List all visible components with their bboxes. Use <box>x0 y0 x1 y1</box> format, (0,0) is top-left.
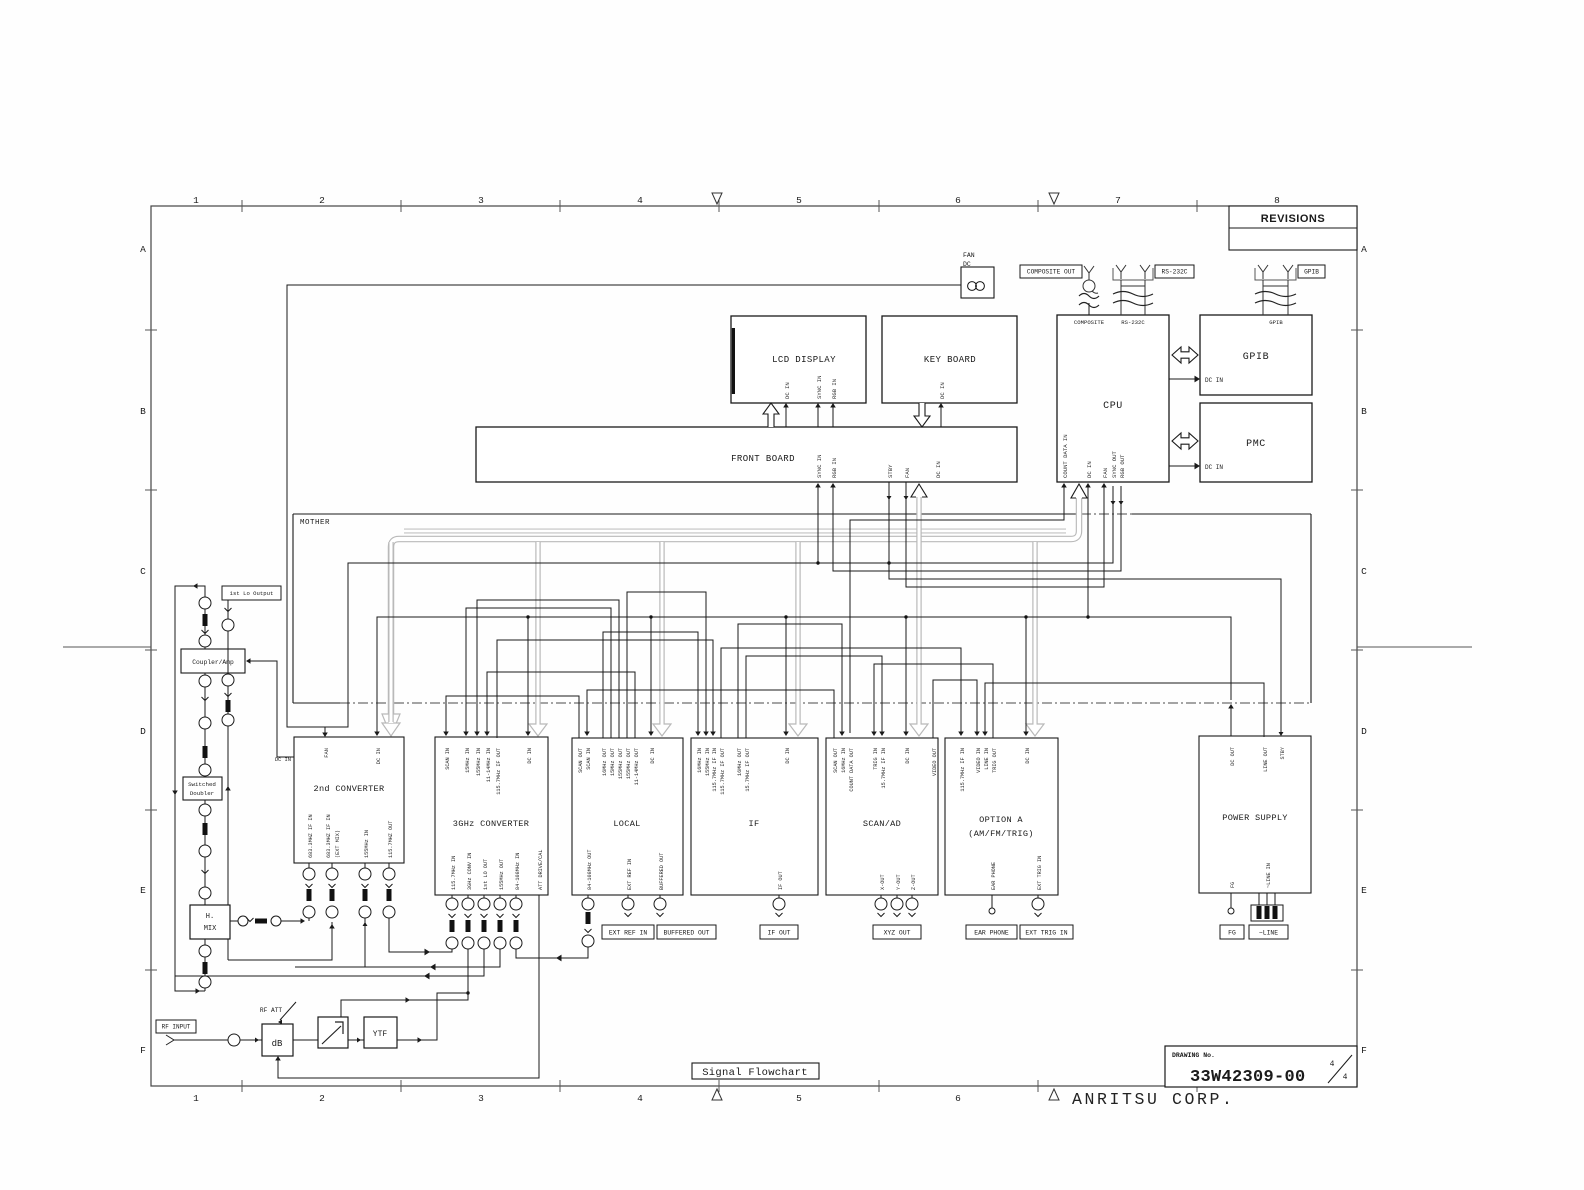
svg-text:XYZ OUT: XYZ OUT <box>884 929 911 936</box>
attenuator dB box <box>262 1024 293 1056</box>
svg-text:RGB IN: RGB IN <box>831 458 838 478</box>
svg-text:4: 4 <box>1330 1060 1335 1069</box>
3GHz CONVERTER box <box>435 737 548 895</box>
svg-text:4: 4 <box>637 195 643 206</box>
LOCAL box <box>572 738 683 895</box>
wire DC drop <box>905 617 907 733</box>
svg-text:115.7MHZ OUT: 115.7MHZ OUT <box>388 821 394 858</box>
svg-text:8: 8 <box>1274 195 1280 206</box>
svg-text:7: 7 <box>1115 195 1121 206</box>
svg-text:VIDEO IN: VIDEO IN <box>976 748 982 773</box>
svg-text:FAN: FAN <box>1102 468 1109 478</box>
wire DC IN to coupler/amp <box>249 661 294 757</box>
CPU box <box>1057 315 1169 482</box>
wire CPU to GPIB DC IN <box>1169 378 1196 380</box>
wire DC drop <box>785 617 787 733</box>
wire net 15.7MHz IF (IF - SCAN/AD) <box>746 656 882 738</box>
power arrow KEY to FRONT <box>914 403 930 427</box>
svg-text:EAR PHONE: EAR PHONE <box>974 929 1009 936</box>
svg-text:DC IN: DC IN <box>784 382 791 399</box>
SCAN/AD box <box>826 738 938 895</box>
svg-text:Signal Flowchart: Signal Flowchart <box>702 1067 808 1079</box>
wire net TRIG (OPTION A - SCAN/AD) <box>874 664 993 738</box>
svg-text:dB: dB <box>272 1039 283 1049</box>
connector chain 2nd-conv pin x=365 <box>364 863 366 868</box>
svg-text:COMPOSITE OUT: COMPOSITE OUT <box>1027 269 1076 276</box>
svg-text:DC IN: DC IN <box>1086 461 1093 478</box>
wire FRONT to LCD RGB IN <box>832 407 834 427</box>
svg-text:3GHz CONV IN: 3GHz CONV IN <box>467 853 473 890</box>
wire YTF output <box>397 993 468 1040</box>
svg-text:115.7MHz IF OUT: 115.7MHz IF OUT <box>496 748 502 795</box>
svg-text:LCD DISPLAY: LCD DISPLAY <box>772 355 836 365</box>
svg-text:SYNC IN: SYNC IN <box>816 376 823 400</box>
svg-text:MIX: MIX <box>204 925 217 933</box>
wire dB to switch <box>293 1039 318 1041</box>
svg-text:3: 3 <box>478 195 484 206</box>
wire DC drop <box>1025 617 1027 733</box>
wire net 155MHz a (LOCAL - 3GHz) <box>477 600 619 738</box>
svg-text:LINE OUT: LINE OUT <box>1263 747 1269 772</box>
svg-text:C: C <box>140 566 146 577</box>
power bus trunk <box>391 498 1079 723</box>
svg-text:SCAN OUT: SCAN OUT <box>833 748 839 773</box>
connectors XYZ OUT <box>880 895 882 898</box>
svg-text:IF: IF <box>749 819 760 829</box>
wire switch bypass <box>341 949 468 1017</box>
switch box <box>318 1017 348 1048</box>
svg-text:RGB IN: RGB IN <box>831 379 838 399</box>
frame triangle marks <box>712 193 722 204</box>
svg-text:OPTION A: OPTION A <box>979 815 1023 825</box>
wire 115.7MHz (2nd conv - 3GHz) <box>389 918 452 952</box>
connector chain 2nd-conv pin x=389 <box>388 863 390 868</box>
POWER SUPPLY box <box>1199 736 1311 893</box>
wire CPU to PMC DC IN <box>1169 465 1196 467</box>
svg-text:H.: H. <box>206 913 214 921</box>
svg-text:DC OUT: DC OUT <box>1230 747 1236 766</box>
svg-text:1: 1 <box>193 195 199 206</box>
svg-text:16MHz IN: 16MHz IN <box>841 748 847 773</box>
svg-text:FAN: FAN <box>904 468 911 478</box>
svg-text:155MHz OUT: 155MHz OUT <box>499 859 505 890</box>
svg-text:2: 2 <box>319 195 325 206</box>
svg-text:SCAN IN: SCAN IN <box>445 748 451 770</box>
svg-text:DC IN: DC IN <box>905 748 911 764</box>
label RF INPUT <box>156 1020 196 1033</box>
svg-text:D: D <box>1361 726 1367 737</box>
svg-text:CPU: CPU <box>1103 401 1123 412</box>
power arrow into CPU <box>1071 484 1087 498</box>
IF box <box>691 738 818 895</box>
svg-text:E: E <box>1361 885 1367 896</box>
wire net 15MHz (LOCAL - 3GHz) <box>466 608 611 738</box>
svg-text:5: 5 <box>796 1093 802 1104</box>
svg-text:X-OUT: X-OUT <box>880 874 886 890</box>
wire net 115.7MHz IF (3GHz - IF) <box>497 640 713 738</box>
svg-text:TRIG OUT: TRIG OUT <box>992 748 998 773</box>
connector EAR PHONE <box>991 895 993 908</box>
svg-text:(EXT MIX): (EXT MIX) <box>335 830 341 858</box>
wire net RGB (FRONT BOARD - CPU) <box>833 486 1121 571</box>
label Signal Flowchart <box>692 1063 819 1079</box>
svg-text:ANRITSU CORP.: ANRITSU CORP. <box>1072 1090 1235 1109</box>
svg-text:SYNC OUT: SYNC OUT <box>1111 451 1118 478</box>
svg-text:SCAN OUT: SCAN OUT <box>578 748 584 773</box>
svg-text:6: 6 <box>955 1093 961 1104</box>
svg-text:TRIG IN: TRIG IN <box>873 748 879 770</box>
svg-text:DC IN: DC IN <box>650 748 656 764</box>
svg-text:155MHz IN: 155MHz IN <box>705 748 711 776</box>
connector chain 3GHz pin x=516 <box>515 895 517 898</box>
wire net 16MHz a (LOCAL - IF) <box>603 632 698 738</box>
power bus drop OPTION A <box>1026 542 1044 736</box>
svg-text:STBY: STBY <box>1280 746 1286 759</box>
svg-text:~LINE IN: ~LINE IN <box>1266 863 1272 888</box>
frame zone ticks top/bottom <box>241 200 243 212</box>
power arrow into FRONT BOARD <box>911 484 927 497</box>
svg-text:RF ATT: RF ATT <box>260 1007 283 1014</box>
connector chain 3GHz pin x=452 <box>451 895 453 898</box>
wire 84-108MHz (LOCAL - 3GHz) <box>516 947 588 958</box>
power bus riser/drop SCAN-AD + FRONT BOARD <box>910 497 928 736</box>
wire ATT DRIVE/CAL to dB attenuator <box>278 895 539 1078</box>
svg-text:33W42309-00: 33W42309-00 <box>1190 1068 1306 1087</box>
svg-text:16MHz IN: 16MHz IN <box>697 748 703 773</box>
svg-text:GPIB: GPIB <box>1269 319 1283 326</box>
svg-text:FAN: FAN <box>963 252 975 259</box>
wire loop left vertical <box>175 586 205 991</box>
label 1st Lo Output <box>222 586 281 600</box>
fan DC box <box>961 267 994 298</box>
svg-text:Switched: Switched <box>188 781 216 788</box>
svg-text:EXT TRIG IN: EXT TRIG IN <box>1037 856 1043 890</box>
connector GPIB <box>1298 265 1325 278</box>
wire switch to YTF <box>348 1039 364 1041</box>
wire DC drop <box>527 617 529 733</box>
wire net 16MHz b (IF - SCAN/AD) <box>738 624 842 738</box>
power bus drop 3GHz converter <box>529 542 547 736</box>
PMC box <box>1200 403 1312 482</box>
svg-text:115.7MHz IF OUT: 115.7MHz IF OUT <box>720 748 726 795</box>
H.MIX output chain <box>230 920 238 922</box>
wire net 11-14MHz (LOCAL - 3GHz) <box>487 672 635 738</box>
wire net STBY (FRONT BOARD - POWER SUPPLY) <box>889 482 1281 733</box>
connector chain 2nd-conv pin x=332 <box>331 863 333 868</box>
svg-text:BUFFERED OUT: BUFFERED OUT <box>659 853 665 890</box>
svg-text:DC IN: DC IN <box>376 748 382 764</box>
svg-text:ATT DRIVE/CAL: ATT DRIVE/CAL <box>538 850 544 890</box>
svg-text:DC IN: DC IN <box>1205 377 1223 384</box>
svg-text:STBY: STBY <box>887 464 894 478</box>
svg-text:POWER SUPPLY: POWER SUPPLY <box>1222 813 1288 823</box>
connector BUFFERED OUT <box>659 895 661 898</box>
bus CPU-PMC <box>1172 433 1198 449</box>
svg-text:DC IN: DC IN <box>1025 748 1031 764</box>
wire FRONT to LCD SYNC IN <box>817 407 819 427</box>
wire 1st LO loop to left chain <box>175 949 484 976</box>
svg-text:KEY BOARD: KEY BOARD <box>924 355 976 365</box>
wire net SCAN b (LOCAL - 3GHz) <box>446 696 579 738</box>
svg-text:11-14MHz IN: 11-14MHz IN <box>486 748 492 782</box>
wire FRONT to LCD DC IN <box>785 407 787 427</box>
connector EXT TRIG IN <box>1037 895 1039 898</box>
connector chain 2nd-conv pin x=309 <box>308 863 310 868</box>
svg-text:RGB OUT: RGB OUT <box>1119 454 1126 478</box>
power bus drop IF <box>789 542 807 736</box>
svg-text:A: A <box>1361 244 1367 255</box>
svg-text:LOCAL: LOCAL <box>613 819 640 829</box>
wire net 115.7MHz IF (IF - OPTION A) <box>721 648 961 738</box>
wire net SYNC (FRONT BOARD - CPU) <box>818 486 1113 563</box>
svg-text:DC IN: DC IN <box>1205 464 1223 471</box>
svg-text:FG: FG <box>1228 929 1236 936</box>
FRONT BOARD box <box>476 427 1017 482</box>
svg-text:FG: FG <box>1230 882 1236 888</box>
svg-text:1: 1 <box>193 1093 199 1104</box>
svg-text:Z-OUT: Z-OUT <box>911 874 917 890</box>
wire net FAN (FRONT BOARD - CPU - 2nd converter) <box>906 482 1104 587</box>
svg-text:3: 3 <box>478 1093 484 1104</box>
wire net SCAN a (SCAN/AD - LOCAL) <box>587 690 834 738</box>
svg-text:2: 2 <box>319 1093 325 1104</box>
svg-text:IF OUT: IF OUT <box>767 929 790 936</box>
svg-text:VIDEO OUT: VIDEO OUT <box>932 748 938 776</box>
svg-text:E: E <box>140 885 146 896</box>
svg-text:2nd CONVERTER: 2nd CONVERTER <box>314 784 385 794</box>
wire DC drop <box>650 617 652 733</box>
svg-text:COUNT DATA OUT: COUNT DATA OUT <box>849 748 855 792</box>
svg-text:16MHz OUT: 16MHz OUT <box>737 748 743 776</box>
svg-text:EXT REF IN: EXT REF IN <box>627 859 633 890</box>
connector chain 3GHz pin x=500 <box>499 895 501 898</box>
wire 155MHz (3GHz - 2nd conv) <box>295 949 500 967</box>
GPIB box <box>1200 315 1312 395</box>
2nd CONVERTER box <box>294 737 404 863</box>
wire net DC trunk <box>377 486 1088 733</box>
wire net VIDEO (SCAN/AD - OPTION A) <box>933 680 977 738</box>
svg-text:IF OUT: IF OUT <box>778 871 784 890</box>
power bus drop 2nd converter <box>382 714 400 736</box>
svg-text:DC IN: DC IN <box>935 461 942 478</box>
svg-text:B: B <box>140 406 146 417</box>
wire chain2 to EXT MIX connector <box>228 922 332 960</box>
svg-text:SYNC IN: SYNC IN <box>816 455 823 479</box>
svg-text:11-14MHz OUT: 11-14MHz OUT <box>634 748 640 785</box>
svg-text:155MHz OUT: 155MHz OUT <box>618 748 624 779</box>
svg-text:C: C <box>1361 566 1367 577</box>
svg-text:D: D <box>140 726 146 737</box>
svg-text:PMC: PMC <box>1246 439 1266 450</box>
connector IF OUT <box>778 895 780 898</box>
svg-text:DC: DC <box>963 261 971 268</box>
svg-text:Doubler: Doubler <box>190 790 214 797</box>
switched doubler box <box>183 777 222 800</box>
connector RS-232C <box>1155 265 1194 278</box>
svg-text:SCAN/AD: SCAN/AD <box>863 819 901 829</box>
svg-text:16MHz OUT: 16MHz OUT <box>602 748 608 776</box>
wire net COUNT DATA (CPU - SCAN/AD) <box>850 486 1064 733</box>
svg-text:BUFFERED OUT: BUFFERED OUT <box>663 929 709 936</box>
chain1 connectors <box>199 597 211 609</box>
wire net 155MHz b (LOCAL - IF) <box>627 592 706 738</box>
title block <box>1165 1046 1357 1087</box>
svg-text:EXT TRIG IN: EXT TRIG IN <box>1025 929 1067 936</box>
OPTION A box <box>945 738 1058 895</box>
svg-text:EXT REF IN: EXT REF IN <box>609 929 648 936</box>
svg-text:FRONT BOARD: FRONT BOARD <box>731 454 795 464</box>
svg-text:1st Lo Output: 1st Lo Output <box>230 590 274 597</box>
svg-text:115.7MHz IF IN: 115.7MHz IF IN <box>712 748 718 792</box>
svg-text:15.7MHz IF IN: 15.7MHz IF IN <box>881 748 887 788</box>
svg-text:RS-232C: RS-232C <box>1162 269 1188 276</box>
KEY BOARD box <box>882 316 1017 403</box>
svg-text:6: 6 <box>955 195 961 206</box>
chain2 (1st Lo Output) <box>227 600 229 960</box>
chain1 main line <box>204 597 206 991</box>
frame zone ticks sides <box>145 329 157 331</box>
svg-text:3GHz CONVERTER: 3GHz CONVERTER <box>453 819 529 829</box>
power arrow FRONT to LCD <box>763 403 779 427</box>
svg-text:B: B <box>1361 406 1367 417</box>
svg-text:155MHz OUT: 155MHz OUT <box>626 748 632 779</box>
coupler/amp box <box>181 649 245 673</box>
svg-text:(AM/FM/TRIG): (AM/FM/TRIG) <box>968 829 1034 839</box>
svg-text:A: A <box>140 244 146 255</box>
svg-text:155MHz IN: 155MHz IN <box>476 748 482 776</box>
wire net LINE (POWER SUPPLY - OPTION A) <box>985 683 1264 737</box>
svg-text:COUNT DATA IN: COUNT DATA IN <box>1062 434 1069 478</box>
power bus drop LOCAL <box>653 542 671 736</box>
svg-text:155MHz IN: 155MHz IN <box>364 830 370 858</box>
svg-text:GPIB: GPIB <box>1304 269 1319 276</box>
svg-text:DRAWING No.: DRAWING No. <box>1172 1052 1215 1059</box>
svg-text:GPIB: GPIB <box>1243 352 1269 363</box>
svg-text:SCAN IN: SCAN IN <box>586 748 592 770</box>
svg-text:EAR PHONE: EAR PHONE <box>991 862 997 890</box>
MOTHER board outline <box>293 513 1081 515</box>
H.MIX box <box>190 905 230 939</box>
svg-text:5: 5 <box>796 195 802 206</box>
svg-text:683.3MHZ IF IN: 683.3MHZ IF IN <box>308 814 314 858</box>
svg-text:F: F <box>1361 1045 1367 1056</box>
svg-text:~LINE: ~LINE <box>1259 929 1278 936</box>
connector EXT REF IN <box>627 895 629 898</box>
wire FAN-DC to left loop <box>287 285 961 733</box>
svg-text:F: F <box>140 1045 146 1056</box>
svg-text:15MHz IN: 15MHz IN <box>465 748 471 773</box>
bus CPU-GPIB <box>1172 347 1198 363</box>
frame centerline marks <box>63 646 151 648</box>
svg-text:DC IN: DC IN <box>939 382 946 399</box>
svg-text:DC IN: DC IN <box>275 757 291 763</box>
YTF box <box>364 1017 397 1048</box>
svg-text:FAN: FAN <box>324 748 330 758</box>
svg-text:15.7MHz IF OUT: 15.7MHz IF OUT <box>745 748 751 792</box>
connector chain 3GHz pin x=468 <box>467 895 469 898</box>
svg-text:4: 4 <box>1343 1073 1348 1082</box>
svg-text:115.7MHz IF IN: 115.7MHz IF IN <box>960 748 966 792</box>
connector COMPOSITE OUT <box>1020 265 1082 278</box>
connector FG <box>1230 893 1232 908</box>
svg-text:DC IN: DC IN <box>785 748 791 764</box>
svg-text:683.3MHZ IF IN: 683.3MHZ IF IN <box>326 814 332 858</box>
svg-text:115.7MHz IN: 115.7MHz IN <box>451 856 457 890</box>
svg-text:YTF: YTF <box>373 1030 388 1039</box>
frame border <box>151 206 1357 1086</box>
svg-text:Y-OUT: Y-OUT <box>896 874 902 890</box>
svg-text:4: 4 <box>637 1093 643 1104</box>
svg-text:REVISIONS: REVISIONS <box>1261 213 1325 225</box>
svg-text:DC IN: DC IN <box>527 748 533 764</box>
svg-text:1st LO OUT: 1st LO OUT <box>483 859 489 890</box>
svg-text:RS-232C: RS-232C <box>1121 319 1145 326</box>
revisions block <box>1229 206 1357 250</box>
wire FRONT to KEY DC IN <box>940 407 942 427</box>
svg-text:15MHz OUT: 15MHz OUT <box>610 748 616 776</box>
sheet number 4/4 <box>1328 1055 1352 1083</box>
LCD DISPLAY box <box>731 316 866 403</box>
connector ~LINE plug <box>1258 893 1260 905</box>
connector chain LOCAL 84-108MHz OUT <box>587 895 589 898</box>
RF input connector <box>166 1035 180 1045</box>
svg-text:COMPOSITE: COMPOSITE <box>1074 319 1105 326</box>
svg-text:84-108MHz IN: 84-108MHz IN <box>515 853 521 890</box>
svg-text:84-108MHz OUT: 84-108MHz OUT <box>587 850 593 890</box>
connector chain 3GHz pin x=484 <box>483 895 485 898</box>
svg-text:LINE IN: LINE IN <box>984 748 990 770</box>
svg-text:MOTHER: MOTHER <box>300 519 330 527</box>
wire net DC OUT (POWER SUPPLY - MOTHER) <box>1230 708 1232 736</box>
svg-text:RF INPUT: RF INPUT <box>162 1024 191 1031</box>
